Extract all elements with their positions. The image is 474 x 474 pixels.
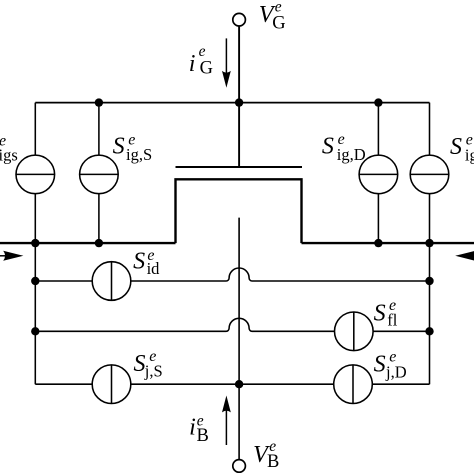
svg-text:e: e bbox=[199, 43, 206, 60]
svg-text:B: B bbox=[197, 426, 209, 446]
wire gate lead from VG terminal bbox=[238, 26, 240, 167]
svg-text:S: S bbox=[450, 134, 462, 160]
node dot source rail / left outer bbox=[31, 239, 39, 247]
wire Sj row bbox=[35, 383, 429, 385]
svg-text:G: G bbox=[272, 14, 285, 34]
arrow source terminal current (left edge, pointing right) bbox=[0, 251, 23, 261]
label V_G^e bbox=[259, 0, 286, 34]
wire left outer vertical bbox=[34, 103, 36, 385]
terminal VB bbox=[233, 460, 246, 473]
arrow iB up bbox=[222, 396, 231, 446]
svg-text:i: i bbox=[189, 51, 196, 77]
wire right inner vertical bbox=[377, 103, 379, 244]
svg-text:S: S bbox=[322, 134, 334, 160]
svg-text:i: i bbox=[189, 414, 196, 440]
terminal VG bbox=[233, 13, 246, 26]
svg-text:S: S bbox=[374, 351, 386, 377]
svg-text:fl: fl bbox=[387, 310, 397, 329]
node dot Sid row left bbox=[31, 277, 39, 285]
svg-text:S: S bbox=[134, 351, 146, 377]
arrow iG down bbox=[222, 38, 231, 87]
label S_j,D^e bbox=[374, 349, 407, 382]
wire left inner vertical bbox=[98, 103, 100, 244]
label S_igd^e (clipped at right edge) bbox=[450, 131, 474, 164]
wire source rail left (node S) bbox=[0, 242, 176, 244]
wire Sid row with hop over bulk bbox=[35, 268, 429, 281]
node dot drain rail / right outer bbox=[425, 239, 433, 247]
current source S_j,S bbox=[92, 365, 131, 404]
node dot source rail / left inner bbox=[95, 239, 103, 247]
svg-text:ig,S: ig,S bbox=[126, 145, 152, 164]
label S_igs^e (clipped at left edge) bbox=[0, 132, 18, 164]
svg-text:j,S: j,S bbox=[144, 362, 163, 381]
svg-text:S: S bbox=[113, 134, 125, 160]
current source S_fl bbox=[335, 312, 374, 351]
wire drain rail right (node D) bbox=[302, 242, 474, 244]
svg-text:j,D: j,D bbox=[385, 362, 407, 381]
label S_ig,S^e bbox=[113, 131, 153, 164]
node dot Sid row right bbox=[425, 277, 433, 285]
label V_B^e bbox=[253, 438, 279, 472]
label S_j,S^e bbox=[134, 348, 163, 380]
transistor M1 channel bbox=[176, 179, 302, 243]
node dot top rail / gate bbox=[235, 98, 243, 106]
svg-text:igs: igs bbox=[0, 145, 18, 164]
svg-text:S: S bbox=[374, 300, 386, 326]
svg-text:ig,D: ig,D bbox=[337, 145, 366, 164]
transistor M1 gate bar bbox=[176, 166, 303, 168]
label S_fl^e bbox=[374, 297, 398, 329]
label S_id^e bbox=[133, 247, 160, 278]
svg-text:B: B bbox=[267, 452, 279, 472]
node dot drain rail / right inner bbox=[374, 239, 382, 247]
node dot top rail / S_ig,S bbox=[95, 98, 103, 106]
node dot top rail / S_ig,D bbox=[374, 98, 382, 106]
current source S_ig,S bbox=[80, 155, 119, 194]
wire top rail bbox=[35, 102, 429, 104]
label S_ig,D^e bbox=[322, 131, 366, 164]
wire bulk lead vertical bbox=[238, 218, 240, 460]
svg-text:G: G bbox=[200, 59, 213, 79]
node dot Sfl row right bbox=[425, 327, 433, 335]
svg-text:S: S bbox=[133, 249, 145, 275]
current source S_igs bbox=[16, 155, 55, 194]
arrow drain terminal current (right edge, pointing left) bbox=[455, 251, 474, 261]
wire right outer vertical bbox=[429, 103, 431, 385]
wire Sfl row with hop over bulk bbox=[35, 318, 429, 331]
label i_B^e bbox=[189, 413, 209, 446]
current source S_j,D bbox=[334, 365, 373, 404]
svg-text:igd: igd bbox=[465, 145, 474, 164]
current source S_ig,D bbox=[359, 155, 398, 194]
current source S_igd bbox=[410, 155, 449, 194]
node dot Sfl row left bbox=[31, 327, 39, 335]
label i_G^e bbox=[189, 43, 213, 79]
current source S_id bbox=[92, 262, 131, 301]
node dot Sj row / bulk bbox=[235, 380, 243, 388]
svg-text:id: id bbox=[147, 259, 161, 278]
